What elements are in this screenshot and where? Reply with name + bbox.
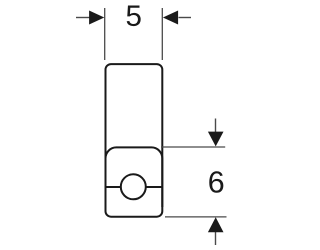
extension line right (width dim) <box>161 8 163 60</box>
body outline <box>106 64 163 217</box>
label 6 <box>209 171 223 193</box>
label 5 <box>127 6 141 27</box>
extension line left (width dim) <box>104 8 106 60</box>
center horizontal line <box>106 186 163 188</box>
arrow left (points right) <box>89 11 104 25</box>
dimension tail top <box>215 119 217 133</box>
arrow right (points left) <box>163 11 178 25</box>
dimension tail bottom <box>215 232 217 245</box>
extension line upper (height dim) <box>161 146 225 148</box>
inner dome shape <box>106 147 163 207</box>
extension line lower (height dim) <box>165 216 227 218</box>
arrow top (points down) <box>208 132 224 147</box>
dimension tail left <box>76 17 91 19</box>
circle <box>121 174 146 199</box>
dimension tail right <box>179 17 192 19</box>
arrow bottom (points up) <box>208 217 224 232</box>
